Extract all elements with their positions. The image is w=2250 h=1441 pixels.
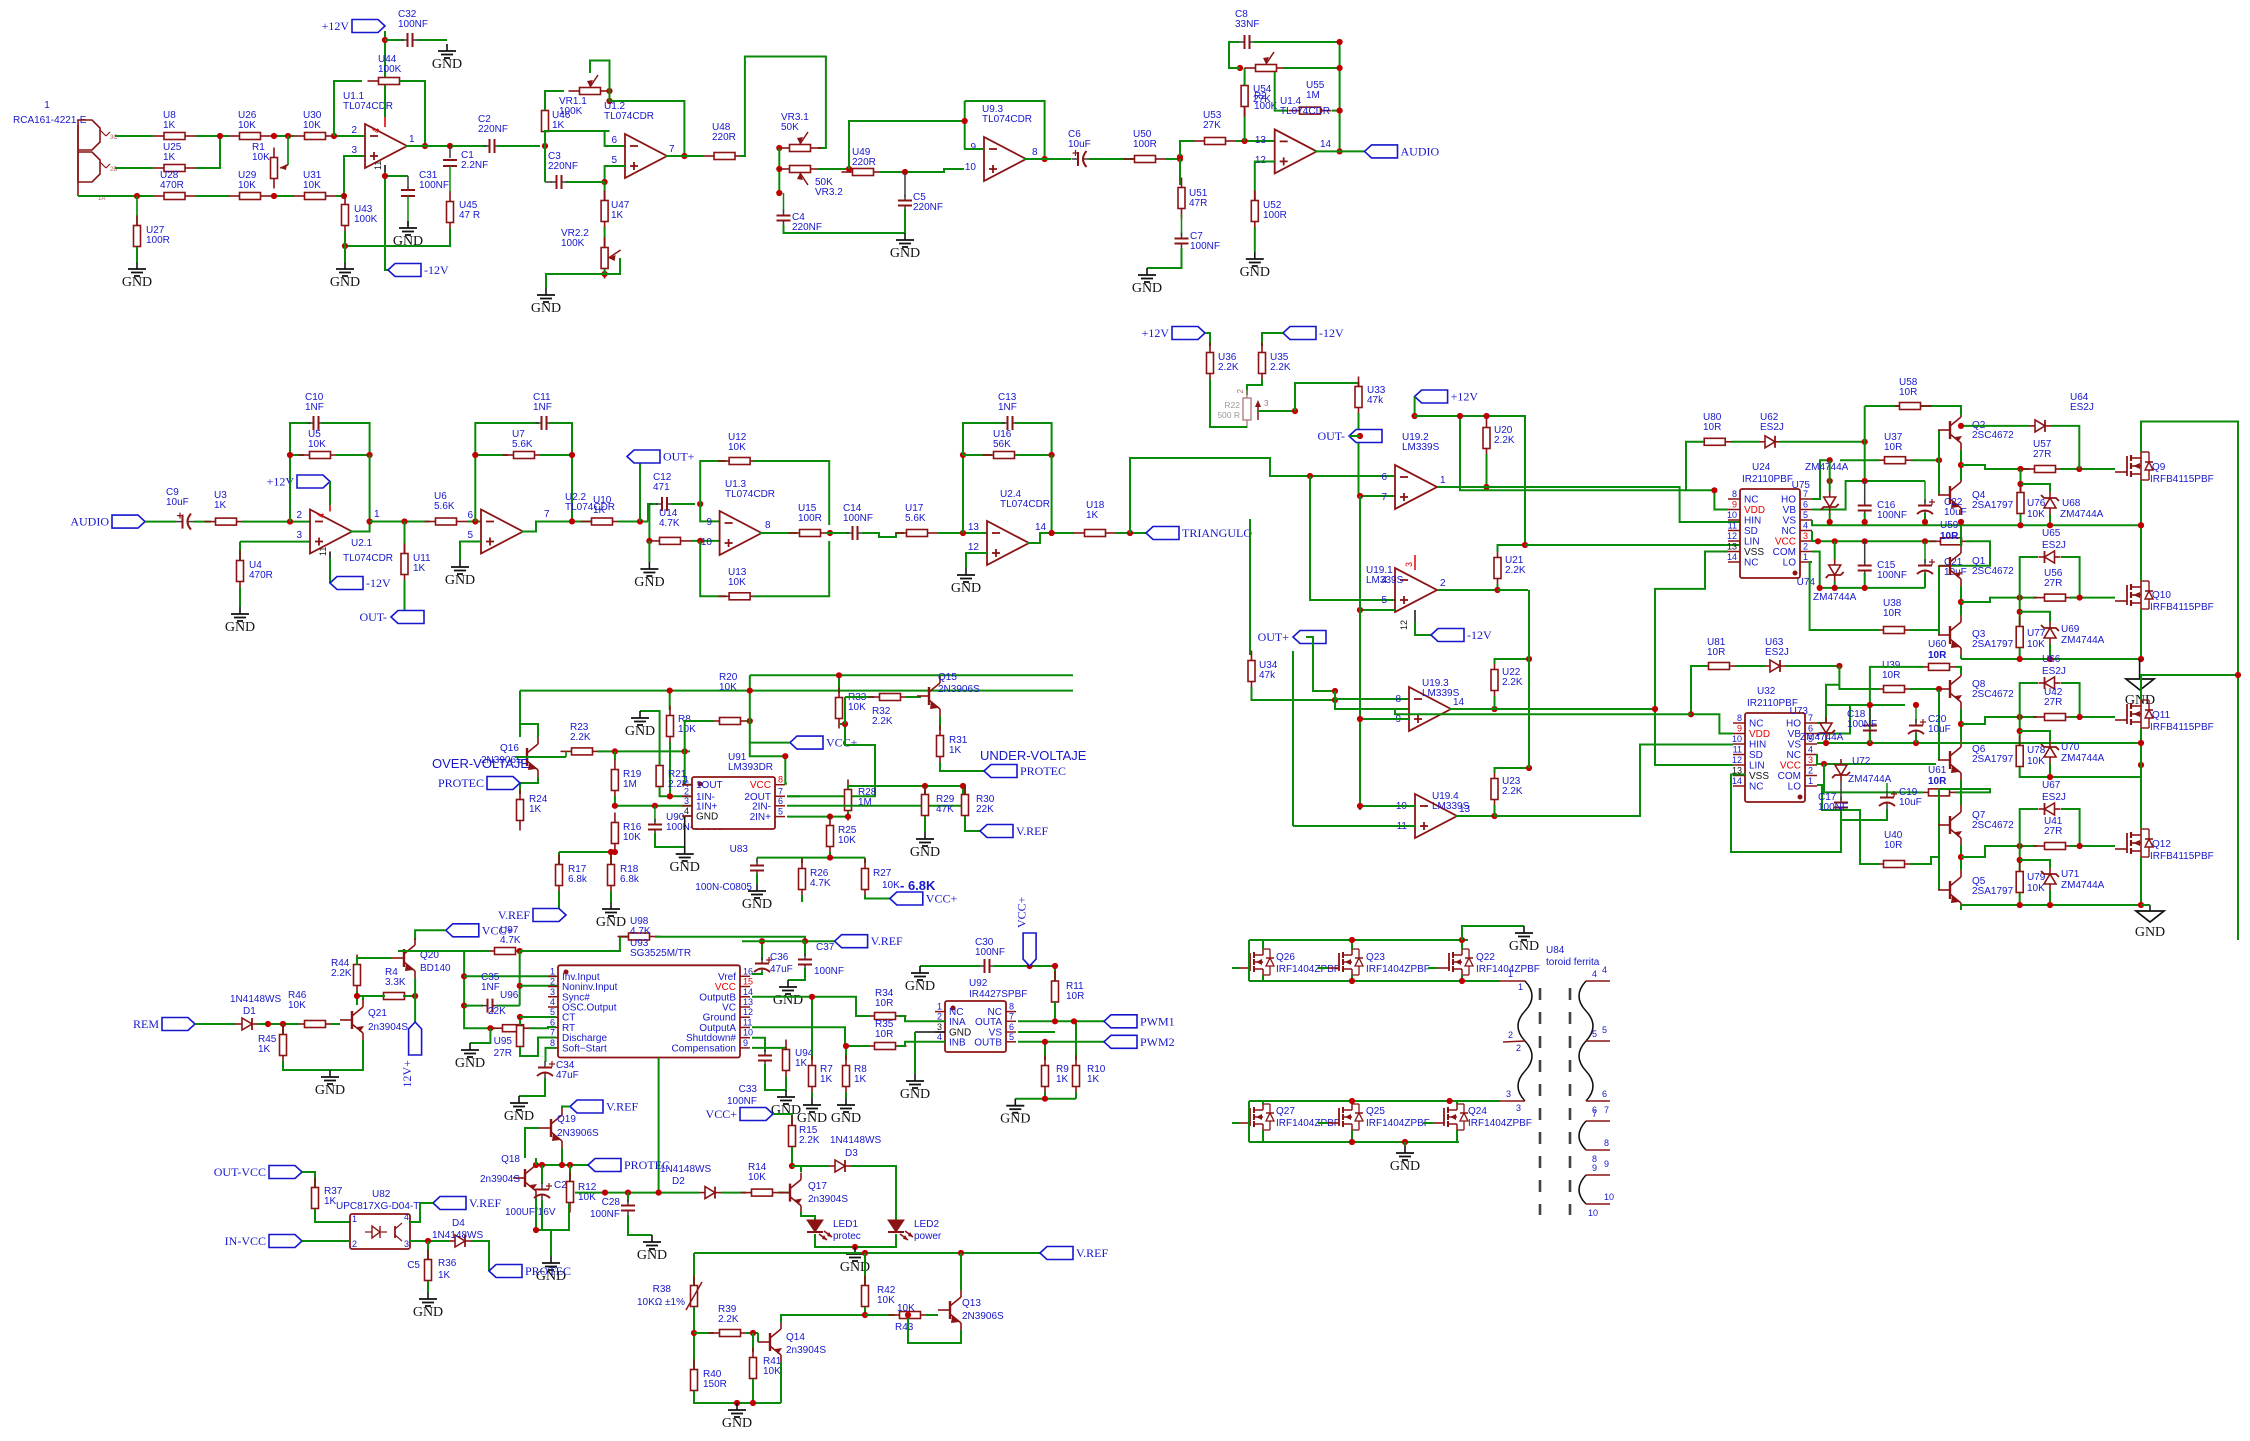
wire top rail protection bbox=[520, 690, 1073, 692]
wire pin4 gnd bbox=[685, 815, 695, 817]
resistor U8 1K bbox=[153, 135, 164, 137]
node r16 bot bbox=[612, 849, 618, 855]
wire bbox=[196, 135, 229, 137]
mosfet Q23 IRF1404ZPBF bbox=[1338, 953, 1340, 971]
svg-text:1: 1 bbox=[1803, 552, 1808, 562]
svg-text:ZM4744A: ZM4744A bbox=[1848, 774, 1892, 785]
wire bbox=[1910, 688, 1939, 690]
node r4 bbox=[2017, 902, 2023, 908]
svg-text:1K: 1K bbox=[1087, 1074, 1100, 1085]
diode U65 ES2J bbox=[2055, 556, 2061, 558]
wire pin2 bbox=[520, 985, 558, 987]
svg-text:100R: 100R bbox=[146, 235, 170, 246]
wire U58 branch bbox=[1884, 406, 1961, 410]
svg-text:1NF: 1NF bbox=[533, 402, 552, 413]
diode U66 ES2J bbox=[2055, 682, 2061, 684]
svg-text:C28: C28 bbox=[602, 1197, 621, 1208]
wire bbox=[669, 742, 671, 796]
svg-text:2N3906S: 2N3906S bbox=[938, 684, 980, 695]
svg-text:10K: 10K bbox=[623, 832, 641, 843]
svg-text:D1: D1 bbox=[243, 1006, 256, 1017]
node U16 left bbox=[960, 452, 966, 458]
node pin2 bbox=[517, 983, 523, 989]
node q11 drn bbox=[2235, 672, 2241, 678]
node pin5 bbox=[1357, 607, 1363, 613]
node emitters Q1Q3 bbox=[1958, 599, 1964, 605]
svg-text:5: 5 bbox=[1009, 1032, 1014, 1042]
node U22 top bbox=[1526, 656, 1532, 662]
svg-text:1K: 1K bbox=[258, 1044, 271, 1055]
wire bbox=[331, 1023, 340, 1025]
svg-text:1K: 1K bbox=[1056, 1074, 1069, 1085]
wire bbox=[1254, 42, 1340, 151]
wire bbox=[904, 209, 906, 233]
node q9 src bbox=[2138, 522, 2144, 528]
wire VCC rail bbox=[1812, 531, 1818, 541]
svg-text:GND: GND bbox=[413, 1305, 443, 1320]
capacitor C21 10uF bbox=[1924, 541, 1926, 563]
svg-text:4: 4 bbox=[404, 1212, 409, 1222]
svg-text:10R: 10R bbox=[1703, 422, 1721, 433]
resistor R30 22K bbox=[964, 786, 966, 794]
wire bbox=[1283, 67, 1340, 69]
svg-text:HIN: HIN bbox=[1744, 516, 1761, 527]
svg-text:PROTEC: PROTEC bbox=[438, 776, 484, 790]
svg-text:10K: 10K bbox=[877, 1295, 895, 1306]
power flag -12V bbox=[388, 264, 421, 277]
resistor U43 100K bbox=[344, 196, 346, 199]
node r39 left bbox=[691, 1330, 697, 1336]
svg-text:100R: 100R bbox=[798, 513, 822, 524]
transistor Q3 2SA1797 bbox=[1949, 626, 1951, 644]
wire bbox=[2020, 809, 2038, 846]
capacitor C37 100NF bbox=[804, 941, 806, 956]
capacitor C9 10uF bbox=[176, 521, 183, 523]
op-amp U2.4 TL074CDR bbox=[987, 521, 1029, 565]
svg-text:5: 5 bbox=[467, 530, 473, 541]
node r7 top bbox=[809, 994, 815, 1000]
power flag -12V comparators bbox=[1415, 622, 1431, 635]
resistor U79 10K bbox=[2019, 846, 2021, 871]
node out U1.2 bbox=[681, 153, 687, 159]
svg-text:9: 9 bbox=[1604, 1159, 1609, 1169]
wire U19.4 out bbox=[1455, 815, 1495, 817]
svg-text:Q27: Q27 bbox=[1276, 1106, 1295, 1117]
svg-text:4: 4 bbox=[1803, 521, 1808, 531]
svg-text:4: 4 bbox=[1592, 969, 1597, 979]
svg-text:2: 2 bbox=[351, 125, 357, 136]
svg-text:U74: U74 bbox=[1797, 577, 1816, 588]
svg-text:Compensation: Compensation bbox=[672, 1043, 736, 1054]
wire bbox=[2060, 468, 2115, 470]
svg-text:8: 8 bbox=[1032, 147, 1038, 158]
IC U91 LM393DR bbox=[692, 777, 775, 829]
svg-text:GND: GND bbox=[1509, 939, 1539, 954]
wire bbox=[544, 146, 546, 182]
wire bbox=[1180, 141, 1194, 157]
svg-text:100NF: 100NF bbox=[727, 1096, 757, 1107]
wire bbox=[1939, 789, 1990, 792]
wire bbox=[1252, 687, 1336, 700]
node U50-U53 bbox=[1177, 154, 1183, 160]
wire bbox=[721, 1192, 746, 1194]
svg-text:GND: GND bbox=[890, 246, 920, 261]
wire vdd2 rail bbox=[1395, 709, 1691, 714]
transistor Q1 2SC4672 bbox=[1949, 557, 1951, 575]
svg-text:9: 9 bbox=[1732, 500, 1737, 510]
wire bottom bus top row bbox=[1249, 980, 1500, 982]
svg-text:2N3906S: 2N3906S bbox=[962, 1311, 1004, 1322]
resistor R16 10K bbox=[614, 813, 616, 823]
svg-text:4.7K: 4.7K bbox=[659, 518, 680, 529]
wire bbox=[1497, 584, 1499, 590]
capacitor C16 100NF bbox=[1864, 481, 1866, 503]
svg-text:Q21: Q21 bbox=[368, 1008, 387, 1019]
svg-text:power: power bbox=[914, 1231, 942, 1242]
resistor U77 10K bbox=[2019, 598, 2021, 626]
wire bbox=[2020, 557, 2038, 598]
resistor R20 10K bbox=[709, 720, 720, 722]
svg-text:NC: NC bbox=[1744, 558, 1758, 569]
svg-text:2.2K: 2.2K bbox=[1502, 677, 1523, 688]
resistor U55 1M bbox=[1289, 110, 1300, 112]
transistor Q18 2n3904S bbox=[524, 1169, 526, 1187]
wire bbox=[1116, 532, 1146, 534]
svg-text:ZM4744A: ZM4744A bbox=[2061, 880, 2105, 891]
svg-text:100NF: 100NF bbox=[1818, 802, 1848, 813]
wire out row bbox=[405, 145, 448, 147]
resistor U27 100R bbox=[136, 196, 138, 225]
svg-text:1: 1 bbox=[409, 134, 415, 145]
resistor R44 2.2K bbox=[356, 955, 358, 965]
svg-text:6: 6 bbox=[778, 796, 783, 806]
wire bbox=[1486, 454, 1488, 487]
wire q16 emitter bbox=[520, 777, 538, 794]
node VR3.2 left bbox=[776, 166, 782, 172]
node vcc2 bbox=[1821, 761, 1827, 767]
svg-text:47k: 47k bbox=[1259, 670, 1276, 681]
svg-text:6: 6 bbox=[611, 135, 617, 146]
capacitor C12 gnd leg / resistor U14 4.7K bbox=[648, 504, 650, 541]
wire bbox=[614, 849, 616, 852]
node rail join bbox=[747, 688, 753, 694]
resistor U60 10R bbox=[1918, 666, 1929, 668]
wire out U2.4 bbox=[1027, 533, 1074, 543]
svg-text:4.7K: 4.7K bbox=[630, 926, 651, 937]
wire src rail4 bbox=[1961, 904, 2141, 906]
resistor U50 100R bbox=[1124, 158, 1135, 160]
wire bbox=[1359, 496, 1361, 810]
svg-text:10: 10 bbox=[701, 537, 713, 548]
resistor U76 10K bbox=[2020, 469, 2022, 493]
svg-text:7: 7 bbox=[669, 144, 675, 155]
op-amp U1.3 TL074CDR bbox=[720, 511, 762, 555]
node c28 top bbox=[602, 1190, 608, 1196]
node fb U2.2 join bbox=[569, 518, 575, 524]
net flag V.REF (U82) bbox=[433, 1197, 466, 1210]
ground Q21 bbox=[329, 1070, 331, 1077]
wire bbox=[2020, 767, 2141, 777]
wire bbox=[788, 968, 805, 980]
svg-text:LO: LO bbox=[1783, 558, 1797, 569]
wire out bbox=[1314, 150, 1364, 152]
node U22 bottom bbox=[1491, 706, 1497, 712]
wire pin12 bbox=[1255, 162, 1275, 201]
svg-text:8: 8 bbox=[1604, 1138, 1609, 1148]
node com a bbox=[1817, 585, 1823, 591]
svg-text:10K: 10K bbox=[719, 682, 737, 693]
resistor U48 220R bbox=[703, 155, 714, 157]
op-amp U1.2 TL074CDR bbox=[625, 134, 667, 178]
svg-text:ES2J: ES2J bbox=[1765, 647, 1789, 658]
node R20 right bbox=[747, 718, 753, 724]
wire bbox=[640, 711, 660, 765]
wire emitters 2 bbox=[1960, 586, 1962, 615]
svg-text:6: 6 bbox=[467, 510, 473, 521]
wire base col bbox=[1938, 430, 1940, 495]
svg-text:GND: GND bbox=[900, 1087, 930, 1102]
node pin2 join bbox=[667, 793, 673, 799]
transistor Q20 BD140 bbox=[403, 949, 405, 967]
svg-text:11: 11 bbox=[1728, 521, 1737, 531]
op-amp U2.1 TL074CDR bbox=[310, 510, 352, 554]
feedback C13 1NF bbox=[962, 455, 964, 533]
svg-text:U75: U75 bbox=[1792, 480, 1811, 491]
resistor U61 10R bbox=[1918, 791, 1929, 793]
node R19 top bbox=[612, 748, 618, 754]
svg-text:5.6K: 5.6K bbox=[434, 501, 455, 512]
node U11 top bbox=[401, 518, 407, 524]
resistor R19 1M bbox=[614, 751, 616, 760]
wire bbox=[778, 1192, 790, 1194]
wire bbox=[550, 1230, 552, 1256]
svg-text:GND: GND bbox=[951, 581, 981, 596]
svg-text:5: 5 bbox=[1592, 1029, 1597, 1039]
svg-text:2: 2 bbox=[1440, 578, 1446, 589]
mosfet Q10 IRFB4115PBF bbox=[2126, 585, 2128, 605]
node r36 top bbox=[425, 1238, 431, 1244]
wire bbox=[1147, 248, 1182, 268]
svg-text:+12V: +12V bbox=[1142, 326, 1170, 340]
wire bbox=[765, 1064, 786, 1090]
IC U24 IR2110PBF bbox=[1740, 489, 1800, 578]
svg-text:OUTB: OUTB bbox=[974, 1037, 1002, 1048]
capacitor U83 100N-C0805 bbox=[756, 858, 758, 862]
resistor U7 5.6K (feedback) bbox=[475, 454, 508, 456]
node OUT- join bbox=[1357, 433, 1363, 439]
svg-text:100NF: 100NF bbox=[590, 1209, 620, 1220]
svg-text:1: 1 bbox=[1808, 776, 1813, 786]
svg-text:U67: U67 bbox=[2042, 780, 2061, 791]
wire bbox=[1864, 573, 1866, 588]
wire bbox=[535, 1158, 537, 1165]
wire bbox=[1864, 513, 1866, 522]
wire bbox=[1054, 1002, 1056, 1021]
node U54 bottom bbox=[1242, 138, 1248, 144]
svg-text:IRF1404ZPBF: IRF1404ZPBF bbox=[1366, 1118, 1430, 1129]
resistor U45 47 R bbox=[449, 192, 451, 202]
svg-text:11: 11 bbox=[1733, 745, 1742, 755]
svg-text:27R: 27R bbox=[2044, 697, 2062, 708]
svg-text:VCC: VCC bbox=[1775, 537, 1796, 548]
svg-text:U65: U65 bbox=[2042, 528, 2061, 539]
net flag PWM1 bbox=[1104, 1015, 1137, 1028]
resistor U18 1K bbox=[1074, 532, 1085, 534]
node out U1.1 bbox=[422, 143, 428, 149]
svg-text:3: 3 bbox=[550, 987, 555, 997]
right winding pins 4-10 bbox=[1586, 980, 1610, 982]
wire pin9 fb bbox=[964, 148, 984, 150]
svg-text:protec: protec bbox=[833, 1231, 861, 1242]
wire bbox=[362, 996, 364, 1000]
wire bbox=[283, 1061, 330, 1070]
svg-text:VR3.2: VR3.2 bbox=[815, 187, 843, 198]
wire LIN bbox=[1525, 541, 1740, 545]
svg-text:GND: GND bbox=[670, 860, 700, 875]
node R1 bottom bbox=[271, 193, 277, 199]
node R8 top bbox=[667, 688, 673, 694]
svg-text:3: 3 bbox=[1506, 1089, 1511, 1099]
svg-text:NC: NC bbox=[1787, 750, 1801, 761]
node r10 top bbox=[1071, 1018, 1077, 1024]
svg-text:VCC: VCC bbox=[1780, 761, 1801, 772]
resistor U38 10R bbox=[1873, 629, 1884, 631]
svg-text:10K: 10K bbox=[238, 120, 256, 131]
wire rail 1165 bbox=[536, 1164, 588, 1166]
node r44 bbox=[354, 993, 360, 999]
node c35 left bbox=[461, 1003, 467, 1009]
resistor R45 1K bbox=[282, 1024, 284, 1034]
wire bbox=[519, 691, 521, 737]
wire gnd top bbox=[1462, 926, 1524, 940]
net flag AUDIO out bbox=[1365, 145, 1398, 158]
svg-text:HIN: HIN bbox=[1749, 740, 1766, 751]
node +12V bbox=[382, 37, 388, 43]
wire bbox=[1262, 333, 1283, 346]
wire bbox=[1910, 857, 1939, 864]
svg-text:GND: GND bbox=[637, 1248, 667, 1263]
ground transformer bottom bbox=[1404, 1142, 1406, 1146]
svg-text:1: 1 bbox=[352, 1214, 357, 1224]
node r18 top bbox=[608, 849, 614, 855]
svg-text:LIN: LIN bbox=[1744, 537, 1760, 548]
svg-text:100NF: 100NF bbox=[1847, 719, 1877, 730]
svg-text:1NF: 1NF bbox=[481, 982, 500, 993]
resistor R34 10R bbox=[864, 1015, 875, 1017]
svg-text:100R: 100R bbox=[1133, 139, 1157, 150]
svg-text:Q25: Q25 bbox=[1366, 1106, 1385, 1117]
capacitor C2 220NF bbox=[452, 145, 487, 147]
svg-text:D4: D4 bbox=[452, 1218, 465, 1229]
wire bbox=[470, 1028, 490, 1043]
svg-text:100NF: 100NF bbox=[1877, 510, 1907, 521]
svg-text:ZM4744A: ZM4744A bbox=[2061, 753, 2105, 764]
net flag V.REF (U93) bbox=[835, 935, 868, 948]
resistor U51 47R bbox=[1179, 159, 1181, 185]
svg-text:GND: GND bbox=[831, 1111, 861, 1126]
transistor Q19 2N3906S bbox=[550, 1119, 552, 1137]
wire q19 coll bbox=[561, 1148, 563, 1165]
svg-text:47 R: 47 R bbox=[459, 210, 480, 221]
node U49 left bbox=[846, 166, 852, 172]
svg-text:10R: 10R bbox=[1882, 670, 1900, 681]
resistor R9 1K bbox=[1044, 1042, 1046, 1060]
wire pin3 bbox=[240, 541, 310, 543]
node pin1 bbox=[461, 973, 467, 979]
svg-text:BD140: BD140 bbox=[420, 963, 451, 974]
wire row 1192 bbox=[569, 1192, 571, 1194]
svg-text:10K: 10K bbox=[678, 724, 696, 735]
wire out U2.1 bbox=[350, 522, 370, 532]
capacitor C7 100NF bbox=[1181, 214, 1183, 236]
svg-text:SD: SD bbox=[1749, 750, 1763, 761]
svg-text:V.REF: V.REF bbox=[1076, 1246, 1108, 1260]
wire bbox=[598, 750, 690, 752]
diode U67 ES2J bbox=[2055, 808, 2061, 810]
svg-text:10uF: 10uF bbox=[1944, 567, 1967, 578]
node q1 coll bbox=[1958, 519, 1964, 525]
node U34 b bbox=[1332, 697, 1338, 703]
wire bbox=[1939, 541, 1990, 566]
wire bbox=[829, 852, 831, 858]
capacitor C12 471 bbox=[648, 504, 658, 522]
wire bbox=[519, 1078, 545, 1096]
node U37 left bbox=[1827, 457, 1833, 463]
node zrail b bbox=[1862, 478, 1868, 484]
svg-text:1K: 1K bbox=[795, 1058, 808, 1069]
wire bbox=[467, 521, 481, 523]
wire bbox=[414, 929, 416, 931]
thermistor R38 10KΩ ±1% bbox=[693, 1253, 695, 1286]
svg-text:IN-VCC: IN-VCC bbox=[225, 1234, 266, 1248]
wire zener rail top bbox=[1864, 442, 1866, 481]
wire bbox=[2051, 426, 2079, 469]
ground C37 bbox=[787, 980, 789, 987]
node u78 bot bbox=[2047, 774, 2053, 780]
resistor R26 4.7K bbox=[801, 858, 803, 863]
svg-text:4: 4 bbox=[1808, 745, 1813, 755]
node gate2 bbox=[2077, 595, 2083, 601]
svg-text:1: 1 bbox=[937, 1002, 942, 1012]
resistor U49 220R bbox=[842, 171, 853, 173]
svg-text:4: 4 bbox=[371, 128, 381, 133]
comparator U19.2 LM339S bbox=[1395, 465, 1437, 509]
resistor R43 10K bbox=[865, 1314, 895, 1316]
svg-text:7: 7 bbox=[1604, 1105, 1609, 1115]
node U2.4 out bbox=[1049, 530, 1055, 536]
resistor R15 2.2K bbox=[791, 1116, 793, 1126]
wire bbox=[1236, 140, 1274, 142]
node gate3 left bbox=[2017, 714, 2023, 720]
net flag V.REF (Q19) bbox=[570, 1100, 603, 1113]
svg-text:2IN-: 2IN- bbox=[752, 801, 771, 812]
svg-text:3: 3 bbox=[1516, 1103, 1521, 1113]
resistor U59 10R bbox=[1930, 540, 1941, 542]
svg-text:10K: 10K bbox=[288, 1000, 306, 1011]
wire U12 fb bbox=[700, 461, 726, 504]
wire bbox=[862, 533, 904, 537]
node pin11 bbox=[382, 173, 388, 179]
svg-text:VCC+: VCC+ bbox=[926, 892, 958, 906]
ground GND output lower bbox=[2149, 905, 2151, 911]
svg-text:12: 12 bbox=[1727, 531, 1737, 541]
wire bbox=[536, 1198, 542, 1230]
svg-text:R36: R36 bbox=[438, 1258, 457, 1269]
svg-text:2IN+: 2IN+ bbox=[750, 812, 772, 823]
node c18 top bbox=[1867, 702, 1873, 708]
svg-text:U92: U92 bbox=[969, 978, 988, 989]
wire bbox=[115, 135, 153, 137]
